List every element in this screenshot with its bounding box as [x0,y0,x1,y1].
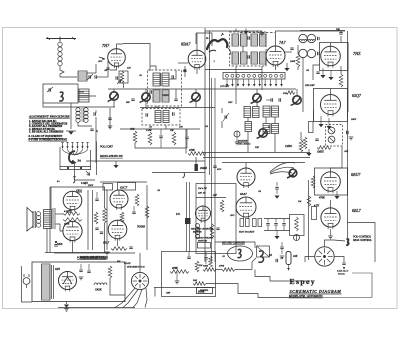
IF T2 winding f [241,52,248,64]
capacitor C45 [129,246,132,248]
svg-text:45V: 45V [217,168,222,171]
osc coil L5b [307,49,315,57]
capacitor C32 [275,187,278,189]
svg-text:.1: .1 [213,60,215,63]
IF T2 winding c [251,34,258,46]
wire [22,266,33,302]
svg-text:1000: 1000 [203,265,209,268]
diode coil a [328,127,335,134]
diode coil b [328,136,335,143]
tuning gang section 5 [293,96,301,104]
osc coil L5a [299,49,307,57]
IF T2 winding h [260,52,267,64]
resistor R7 [188,152,206,156]
wire [242,46,244,52]
IF T2 winding d [260,34,267,46]
wire [274,134,276,153]
IF T2 winding a [232,34,239,46]
wire [72,241,74,253]
svg-text:GANG: GANG [162,94,169,97]
output transformer T5 [44,210,52,229]
capacitor C18 [174,98,177,100]
wire [245,163,247,169]
wire [58,307,135,309]
wire [297,67,299,70]
tube V16 phono [196,206,211,221]
resistor R2 [296,54,300,67]
wire [87,190,89,250]
resistor R29 [203,268,216,272]
twisted shielded lead [207,39,227,49]
phono motor M1 [228,246,253,261]
svg-text:POWER SPEAKER FIELD: POWER SPEAKER FIELD [76,257,106,260]
svg-text:VOL.CONT: VOL.CONT [100,146,113,149]
wire mid bus [86,160,205,162]
wire [215,242,255,248]
resistor R30 [222,268,235,272]
svg-text:470#: 470# [219,265,225,268]
svg-text:6BL7: 6BL7 [352,208,362,213]
socket terminal c [253,219,257,227]
capacitor C48 [87,270,90,272]
dial pointer knot [289,169,297,177]
capacitor C26 [195,164,198,171]
svg-text:1MEG: 1MEG [317,151,324,154]
speaker SP1 [27,208,33,232]
svg-text:OSC: OSC [228,101,233,104]
wire [235,89,237,104]
capacitor C34 [274,223,277,225]
svg-text:2ND DET: 2ND DET [305,84,315,87]
resistor R16 [63,212,80,216]
tube V13 6K6 [63,221,82,240]
cable run [211,78,213,262]
capacitor C50 [187,256,190,258]
IF can T3 frame [142,109,180,126]
svg-text:8BA7: 8BA7 [181,42,191,47]
wire [150,66,156,70]
wire [50,186,105,188]
wire [100,181,147,183]
svg-text:P.U.: P.U. [175,213,181,216]
capacitor C23 [159,135,162,137]
wire [96,142,98,176]
trimmer C28 [234,131,240,137]
ground G5 [328,77,333,80]
capacitor C35 [282,223,285,225]
wire [70,103,72,129]
wire [60,76,77,78]
capacitor C47 [79,269,82,271]
wire [154,288,156,297]
plug fan lines [115,288,135,308]
IF T2 winding b [241,34,248,46]
tuning gang section 3 [192,93,200,101]
wire [347,43,349,112]
wire [222,162,305,164]
IF transformer T1 can [148,70,182,106]
wire [330,168,332,172]
wire [178,62,188,64]
wire [206,284,310,298]
audio box [315,168,348,195]
wire [284,51,292,53]
wire [340,66,342,74]
capacitor C29 [315,138,318,140]
capacitor C8 [149,90,151,93]
capacitor C31 [342,262,345,264]
power transformer T6 winding [42,264,51,300]
wire [120,128,200,130]
IF T1 secondary [162,73,169,86]
svg-text:6K6: 6K6 [57,242,63,246]
capacitor C22 [172,112,174,115]
tube V1 7H7 [108,49,126,67]
svg-text:6K6: 6K6 [76,190,82,194]
IF T1 tert [153,90,160,102]
resistor R8 [299,140,303,152]
resistor R25 [108,266,112,278]
grid arrow [99,57,105,59]
bass coil squiggle [258,251,263,262]
svg-text:470K: 470K [171,267,178,270]
capacitor C41 [95,227,98,229]
wire [110,66,117,70]
wire [110,278,125,295]
resistor R20 [135,194,139,206]
resistor R24 [210,224,214,238]
wire [46,229,48,253]
ground G16 [274,236,279,239]
wire [247,118,249,122]
wire [310,297,372,299]
wire [50,187,52,210]
svg-text:6X5: 6X5 [55,267,61,271]
wire [78,122,92,126]
wire [104,187,106,196]
tuning gang section 2 [142,93,150,101]
osc coil T4 winding e [245,122,252,132]
speaker plug J1 [131,272,148,289]
capacitor C9 [183,69,186,71]
capacitor C42 [100,231,103,233]
IF T1 primary [153,73,160,86]
svg-text:Screen: Screen [338,273,345,276]
resistor R15 [295,217,299,231]
svg-text:47K: 47K [130,128,135,131]
svg-text:8.2K: 8.2K [64,210,69,213]
wire [157,106,159,109]
svg-text:1MEG: 1MEG [285,145,292,148]
band switch wiper 3A [69,151,75,164]
resistor R5 [148,132,152,145]
label wafer [197,288,213,294]
tube V9 6SK7 [237,168,255,186]
svg-text:Espey: Espey [290,277,316,286]
tube V12 6K6 [63,191,82,210]
rectifier tube V17 [59,272,77,290]
svg-text:20Mfd: 20Mfd [200,167,207,170]
ground G7 [108,125,113,127]
resistor R11 [317,146,331,150]
ground G13 [334,196,339,199]
svg-text:A: A [95,130,98,133]
resistor R31 [193,282,206,286]
ground G12 [306,153,311,156]
wire [247,132,249,153]
wire [140,107,215,109]
svg-text:1ST DET: 1ST DET [220,85,230,88]
wire [297,45,299,54]
wire [152,172,205,174]
svg-text:.01: .01 [139,74,142,77]
ground G14 [328,235,333,237]
wire [330,200,332,208]
ground G9 [235,141,240,143]
resistor R23 [111,247,127,251]
capacitor C21 [145,113,147,116]
ground G10 [318,124,323,127]
wire [56,213,64,215]
wire [95,117,97,163]
capacitor C19 [93,112,95,115]
capacitor C24 [185,136,188,138]
svg-text:6BU7: 6BU7 [351,172,361,177]
tube V6 [321,172,341,192]
wire [59,39,61,43]
tube V14 6SC7 [110,190,128,208]
oscillator box [43,84,78,103]
wire [154,287,216,289]
svg-text:AVC: AVC [229,214,235,217]
svg-text:ALIGNMENT PROCEDURE: ALIGNMENT PROCEDURE [28,115,71,119]
V4 box [320,43,349,71]
tuning gang section 1 [110,92,118,100]
svg-text:RADIO-PHONO SW.: RADIO-PHONO SW. [99,155,123,158]
svg-text:100K: 100K [290,60,296,63]
wire [117,239,119,246]
tuning gang section 4 [253,94,261,102]
resistor R12 [311,176,315,188]
wire AVC bus 2 [203,157,310,159]
wire [165,125,167,129]
svg-text:470K: 470K [64,223,70,226]
wire [145,101,147,108]
ground G11 [326,126,331,129]
svg-text:MODEL 6756 : AUTOMATIC: MODEL 6756 : AUTOMATIC [288,295,323,298]
capacitor C54 [278,98,280,101]
ground G3 [284,68,289,71]
wire [313,110,315,122]
band switch contacts [61,142,63,144]
loop antenna coil L1 [58,42,62,46]
svg-text:B+: B+ [57,180,60,183]
capacitor C38 [73,178,75,183]
ground G6 [68,132,73,135]
resistor R4 [133,131,137,143]
svg-text:6SA7 SOCKET: 6SA7 SOCKET [239,231,255,234]
potentiometer VR1 [315,247,334,266]
tube V3 7A7 [266,46,285,65]
wire [340,36,342,42]
capacitor C11 [247,55,249,58]
svg-text:6SA7: 6SA7 [240,192,247,196]
tube V2 8BA7 [188,50,206,68]
resistor R19 [103,208,107,223]
svg-text:250V: 250V [88,184,94,187]
wire [340,31,342,33]
wire [221,108,223,113]
tone box [162,252,216,297]
wire [104,196,106,208]
svg-text:7H7: 7H7 [102,43,110,48]
tube V5 6SQ7 [321,95,341,115]
wire [104,223,106,253]
ground G4 [320,75,325,78]
wire [60,66,64,77]
osc tuning knot [259,129,267,137]
power transformer core [51,265,53,299]
capacitor C56 [183,173,185,179]
svg-text:SCHEMATIC DIAGRAM: SCHEMATIC DIAGRAM [290,289,342,294]
IF can T2 frame [230,32,267,66]
wire [196,68,198,74]
antenna coil L2 [78,71,87,81]
resistor R1 [120,71,124,83]
wire [252,258,256,270]
svg-text:500K: 500K [198,289,206,293]
wire [300,132,302,140]
wire [107,61,109,77]
capacitor C51 [275,259,277,262]
tube V4 7B6 [321,46,341,66]
wire [109,108,111,129]
wire [117,44,124,49]
dial lamp strip [223,73,285,80]
resistor R17 [63,218,82,222]
wire [196,197,226,199]
osc coil T4 winding a [244,107,251,118]
shielded cable [186,182,188,252]
svg-text:280V: 280V [351,118,357,121]
resistor R9 [309,122,314,133]
svg-text:22K: 22K [255,146,259,149]
resistor R22 [145,206,149,218]
wire gang bus [108,88,296,90]
wire [205,30,262,32]
motor switch S2 [257,246,270,257]
trimmer C6 [118,79,120,82]
tube V10 6SA7 [236,197,256,217]
svg-text:6SL7: 6SL7 [103,241,110,245]
ground G17 [280,255,285,257]
wire [276,31,346,46]
ground G15 [274,196,279,199]
IF T3 winding b [163,111,169,123]
electrolytic C52 [286,252,291,265]
padder C27 [224,115,226,118]
wire AVC bus 1 [203,152,310,154]
resistor R21 [120,212,124,222]
capacitor C17 [131,98,134,100]
resistor R28 [209,256,213,267]
wire [275,65,277,70]
capacitor C5 [115,76,117,79]
svg-text:C#OK: C#OK [95,289,102,292]
capacitor C12 [290,47,293,49]
socket terminal a [240,219,244,227]
resistor R26 [170,270,189,274]
osc coil L4a [299,34,307,42]
trimmer C1 [88,75,90,78]
variable capacitor C3 [47,87,53,92]
wire [74,163,76,175]
wire [235,29,237,33]
detector box [314,89,348,122]
osc pad box [290,215,305,236]
wire [145,89,147,93]
phono box [196,184,236,254]
socket terminal b [246,219,250,227]
resistor R6 [172,132,176,145]
dial lamp sockets [226,79,228,84]
wire [60,166,91,168]
svg-text:BASS CONTROL: BASS CONTROL [353,239,372,242]
speaker voice coil [36,212,40,216]
capacitor C2 [94,75,96,78]
wire [78,91,84,93]
svg-text:1M 4.7K: 1M 4.7K [198,187,207,190]
wire [66,302,68,305]
wire [135,143,187,148]
wire [330,43,332,47]
capacitor C43 [54,244,57,246]
ground G1 [260,32,265,34]
wire [261,66,263,90]
wire [256,102,258,106]
IF T1 core [160,73,162,86]
wire [265,117,267,124]
wire [348,223,376,263]
wire [255,270,310,282]
capacitor C20 [90,128,93,130]
capacitor C7 [171,75,173,78]
wire [95,64,97,73]
wire [123,83,125,88]
switch arrow [86,171,90,175]
switch S3 [198,243,211,249]
resistor R18 [94,212,98,224]
wire [175,89,177,98]
wire [92,190,94,250]
label V14 6SC7 [118,183,136,191]
svg-text:MOTOR: MOTOR [192,231,202,234]
diode coil can [326,125,343,147]
wire [296,89,298,96]
IF T2 winding g [251,52,258,64]
capacitor C30 [346,131,348,134]
wire [184,66,186,77]
wire [139,253,141,272]
capacitor C37 [280,246,283,248]
resistor R32 [286,91,295,95]
capacitor C39 [68,210,71,212]
wire [265,58,267,66]
wire [113,89,115,92]
small box filter [119,71,128,83]
power box [32,262,125,302]
wire top bus [240,32,275,34]
